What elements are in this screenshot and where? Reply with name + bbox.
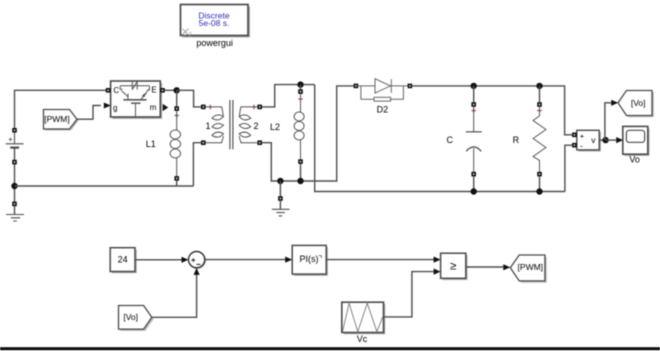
arrowhead into relational in2 bbox=[434, 269, 441, 275]
IGBT U1 icon bbox=[120, 81, 149, 117]
transformer T1 winding 2 bbox=[239, 107, 258, 143]
arrowhead into PI bbox=[285, 257, 292, 263]
wire to scope bbox=[606, 139, 616, 141]
wire winding2 top rail bbox=[262, 85, 315, 107]
node bottom R junction bbox=[536, 188, 542, 194]
svg-text:Vo: Vo bbox=[629, 155, 640, 165]
ground G2 port bbox=[278, 196, 283, 201]
diode D2 bbox=[358, 79, 408, 101]
svg-text:R: R bbox=[513, 135, 520, 145]
wire secondary bottom rail bbox=[262, 86, 354, 181]
wire relational to PWM goto bbox=[466, 266, 504, 268]
ground G2 bbox=[272, 201, 290, 216]
wire L1 to bottom rail bbox=[176, 181, 178, 186]
arrowhead into PWM goto bbox=[503, 264, 510, 270]
L2 plus polarity bbox=[298, 97, 303, 102]
node secondary top junction bbox=[297, 81, 303, 87]
From tag [Vo] bbox=[119, 306, 154, 331]
IGBT E port bbox=[160, 88, 165, 93]
winding 2 plus polarity bbox=[252, 105, 257, 110]
Goto tag [PWM] bbox=[510, 255, 546, 283]
wire battery to ground junction bbox=[14, 164, 16, 202]
diode D2 left port bbox=[354, 84, 359, 89]
wire primary bottom rail bbox=[15, 185, 194, 187]
wire Vm output bbox=[599, 139, 605, 141]
svg-text:2: 2 bbox=[253, 121, 258, 131]
svg-text:1: 1 bbox=[205, 121, 210, 131]
node Vm output junction bbox=[602, 137, 608, 143]
capacitor C bottom port bbox=[471, 172, 476, 177]
wire secondary top to output bottom rail bbox=[315, 85, 565, 192]
C plus polarity bbox=[471, 108, 476, 113]
IGBT U1 bbox=[111, 81, 163, 119]
svg-text:C: C bbox=[447, 135, 454, 145]
transformer T1 core bbox=[230, 100, 233, 149]
voltage measurement U2 bbox=[577, 130, 601, 151]
L2 bottom port bbox=[298, 159, 303, 164]
svg-text:24: 24 bbox=[118, 255, 128, 265]
wire to Goto Vo bbox=[605, 103, 611, 140]
From tag [PWM] bbox=[44, 110, 79, 131]
wire C branch bottom bbox=[473, 176, 475, 191]
node bottom C junction bbox=[471, 188, 477, 194]
arrowhead into g bbox=[104, 103, 111, 109]
wire winding1 bottom to rail bbox=[193, 143, 201, 186]
arrowhead into relational in1 bbox=[434, 257, 441, 263]
transformer T1 winding 1 top port bbox=[201, 105, 206, 110]
svg-text:g: g bbox=[113, 103, 117, 112]
Vm minus port bbox=[572, 143, 577, 148]
Goto tag [Vo] bbox=[618, 91, 654, 118]
arrowhead into sum bottom bbox=[194, 268, 200, 275]
svg-text:+: + bbox=[580, 131, 585, 140]
R plus polarity bbox=[537, 108, 542, 113]
DC source V1 top port bbox=[12, 128, 17, 133]
DC voltage source V1 bbox=[6, 133, 24, 161]
powergui U0 bbox=[181, 5, 251, 39]
node top C junction bbox=[471, 83, 477, 89]
wire node A down to L1 bbox=[176, 90, 178, 106]
svg-text:E: E bbox=[151, 85, 156, 94]
svg-text:2: 2 bbox=[188, 31, 192, 38]
svg-text:[Vo]: [Vo] bbox=[123, 312, 138, 322]
repeating sequence Vc bbox=[342, 302, 386, 334]
node L2 junction secondary bbox=[297, 178, 303, 184]
scope Vo bbox=[623, 126, 650, 156]
resistor R bbox=[533, 107, 546, 172]
svg-text:[PWM]: [PWM] bbox=[518, 262, 544, 272]
inductor L1 bbox=[170, 111, 180, 176]
wire bottom rail to Vm minus bbox=[565, 145, 572, 191]
transformer T1 winding 1 bottom port bbox=[201, 140, 206, 145]
svg-text:+: + bbox=[8, 135, 13, 144]
wire Vc to relational bbox=[384, 272, 435, 317]
svg-text:m: m bbox=[150, 103, 157, 112]
relational operator >= bbox=[441, 253, 468, 280]
wire PWM to gate bbox=[77, 106, 101, 120]
L1 bottom port bbox=[174, 176, 179, 181]
svg-text:v: v bbox=[591, 135, 596, 145]
ground G1 port bbox=[12, 202, 17, 207]
winding 1 plus polarity bbox=[208, 105, 213, 110]
DC source V1 bottom port bbox=[12, 160, 17, 165]
wire Vo tag to sum bbox=[152, 275, 197, 318]
svg-text:L2: L2 bbox=[270, 122, 280, 132]
wire E to node A bbox=[165, 89, 177, 91]
svg-text:Vc: Vc bbox=[357, 334, 368, 344]
svg-text:≥: ≥ bbox=[450, 261, 456, 273]
IGBT m output arrow bbox=[163, 104, 169, 111]
svg-text:C: C bbox=[113, 86, 119, 95]
svg-text:D2: D2 bbox=[377, 105, 389, 115]
svg-text:[PWM]: [PWM] bbox=[44, 114, 70, 124]
svg-text:5e-08 s.: 5e-08 s. bbox=[199, 18, 230, 28]
svg-text:PI(s): PI(s) bbox=[300, 254, 319, 264]
wire sum to PI bbox=[205, 259, 286, 261]
L2 top port bbox=[298, 89, 303, 94]
inductor L2 bbox=[294, 94, 304, 159]
svg-text:-: - bbox=[580, 140, 583, 150]
svg-text:[Vo]: [Vo] bbox=[631, 98, 646, 108]
wire battery top to IGBT C bbox=[15, 90, 107, 130]
L1 plus polarity bbox=[174, 113, 179, 118]
L1 top port bbox=[174, 106, 179, 111]
capacitor C top port bbox=[471, 102, 476, 107]
wire C branch top bbox=[473, 86, 475, 102]
Vm plus port bbox=[572, 133, 577, 138]
arrowhead into scope bbox=[616, 137, 623, 143]
IGBT C port bbox=[106, 88, 111, 93]
constant 24 bbox=[110, 248, 137, 274]
wire output top rail bbox=[412, 86, 572, 135]
node ground junction secondary bbox=[277, 178, 283, 184]
wire R branch bottom bbox=[539, 176, 541, 191]
PID controller PI(s) bbox=[292, 245, 328, 276]
node junction bottom-left bbox=[11, 183, 17, 189]
bottom border bar bbox=[0, 347, 660, 350]
diode D2 right port bbox=[408, 84, 413, 89]
wire node A to winding 1 bbox=[177, 90, 202, 107]
capacitor C bbox=[466, 107, 482, 172]
resistor R bottom port bbox=[537, 172, 542, 177]
IGBT emitter arrow bbox=[142, 93, 146, 97]
wire 24 to sum bbox=[135, 259, 182, 261]
wire R branch top bbox=[539, 86, 541, 102]
node A junction bbox=[174, 87, 180, 93]
transformer T1 winding 1 bbox=[206, 107, 224, 143]
wire junction to L2 bbox=[300, 85, 302, 90]
transformer T1 winding 2 bottom port bbox=[257, 140, 262, 145]
wire junction to ground G2 bbox=[279, 181, 281, 196]
wire L2 to secondary rail bbox=[300, 164, 302, 181]
svg-text:powergui: powergui bbox=[196, 38, 233, 48]
arrowhead into Goto Vo bbox=[611, 100, 618, 106]
arrowhead into sum bbox=[182, 257, 189, 263]
wire PI to relational bbox=[326, 259, 434, 261]
ground G1 bbox=[6, 206, 24, 221]
resistor R top port bbox=[537, 102, 542, 107]
sum S1 bbox=[189, 252, 206, 269]
svg-text:L1: L1 bbox=[146, 139, 156, 149]
node top R junction bbox=[536, 83, 542, 89]
transformer T1 winding 2 top port bbox=[257, 105, 262, 110]
